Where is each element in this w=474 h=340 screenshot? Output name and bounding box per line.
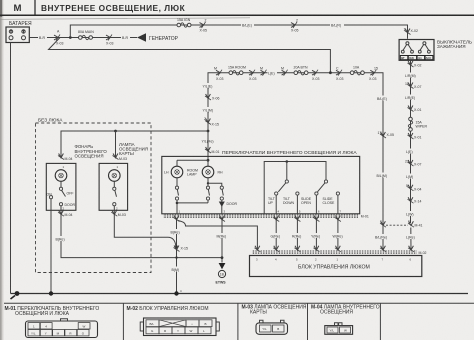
connector X-15 ground wire	[174, 246, 180, 252]
connector X-05 right column	[380, 132, 386, 138]
connector X-06	[205, 94, 211, 100]
legend M-01 connector body	[26, 321, 98, 338]
RH switch stem	[207, 178, 209, 186]
LH switch contact top	[175, 186, 178, 189]
ignition switch tree right	[423, 42, 426, 45]
pin1 exit chevron	[174, 216, 180, 222]
slide close contact	[336, 192, 339, 195]
wire label L/R(M)	[405, 73, 418, 78]
switch blade	[115, 190, 117, 197]
RH switch contact bottom	[206, 197, 209, 200]
wire label B/L(Re)	[375, 234, 390, 239]
contact DOOR	[59, 203, 62, 206]
slide blade	[318, 183, 326, 192]
pin3 exit chevron	[219, 216, 225, 222]
fuse 15A ROOM	[229, 71, 243, 75]
RH wire to link	[207, 200, 209, 203]
wire junction up to ignition feed line	[70, 25, 407, 39]
M-02 left ear	[140, 322, 143, 331]
RH room lamp bulb	[202, 166, 214, 178]
wire label M(Re)	[216, 233, 228, 238]
junction node crossing	[175, 256, 177, 258]
fuse 15A IGN on ignition feed line	[177, 23, 191, 27]
junction node LH bottom	[176, 202, 179, 205]
slide close wire to pin	[337, 195, 339, 214]
connector X-07 lower	[408, 160, 414, 166]
connector X-14	[408, 197, 414, 203]
connector X-15	[205, 119, 211, 125]
switch unit M-01 box	[162, 156, 360, 213]
LH switch contact bottom	[175, 197, 178, 200]
wire label B/L(R)	[330, 23, 344, 28]
LH switch blade	[177, 189, 178, 195]
connector X-03	[249, 70, 255, 76]
bottom link wire	[177, 202, 208, 204]
connector M arrow	[282, 70, 288, 76]
connector M-04 top	[58, 154, 64, 160]
generator page arrow	[137, 33, 146, 42]
wire tilt down to control	[296, 218, 298, 250]
ground symbol	[15, 291, 20, 296]
wire label L(W)	[406, 211, 416, 216]
connector X-03 on battery wire	[54, 35, 60, 41]
battery terminal left	[9, 30, 12, 33]
connector X-03 to generator	[106, 35, 112, 41]
wire into big box	[207, 131, 209, 160]
junction node RH top link	[207, 182, 209, 184]
wire slide open to control	[315, 218, 317, 250]
lamp feed wire to room lamps	[61, 131, 208, 157]
LH room lamp bulb	[171, 166, 183, 178]
legend M-03 connector body	[256, 323, 288, 334]
fuse 15A WIPER vertical	[408, 117, 412, 131]
fuse row wire	[208, 73, 383, 250]
sunroof switch bus	[264, 162, 326, 214]
switch pivot	[113, 187, 116, 190]
junction node fuse row	[329, 71, 332, 74]
slide pivot contact	[324, 180, 327, 183]
slide open contact	[315, 192, 318, 195]
connector C arrow	[336, 70, 342, 76]
M-01 bottom row cells	[28, 330, 40, 336]
tilt pivot contact	[285, 180, 288, 183]
tilt blade	[278, 183, 286, 192]
legend divider 4	[379, 303, 381, 340]
tilt down wire to pin	[296, 195, 298, 214]
junction node room lamp feed	[207, 159, 210, 162]
wire label B/L(M)	[376, 173, 390, 178]
legend divider 3	[307, 303, 309, 340]
junction node ground lamp	[49, 291, 53, 295]
interior lamp bulb	[55, 170, 67, 182]
legend divider 1	[122, 303, 124, 340]
fuse 80A MAIN	[79, 35, 93, 39]
connector X-01	[408, 106, 414, 112]
wire label L(E)	[406, 149, 416, 154]
ignition switch tree left	[406, 42, 409, 45]
connector X-04	[408, 185, 414, 191]
map lamp feed	[115, 131, 117, 157]
legend M-02 connector body	[144, 318, 217, 336]
fuse 20A BTN	[294, 71, 308, 75]
M-03 ears	[260, 320, 285, 323]
legend divider 2	[237, 303, 239, 340]
wire out of map lamp	[114, 206, 176, 247]
wire label B-R	[121, 35, 130, 40]
frame top rule	[0, 18, 250, 20]
M-02 bottom row	[146, 327, 159, 334]
connector M-04 bottom	[58, 210, 64, 216]
slide open wire to pin	[315, 195, 317, 214]
M-02 connector strip hatch	[252, 250, 417, 253]
switch pivot	[59, 187, 62, 190]
M-01 top row cell 2	[40, 323, 52, 329]
header divider	[34, 0, 36, 15]
M-02 top row	[146, 320, 159, 327]
M-02 right ear	[216, 322, 219, 331]
branch to control unit pin	[178, 221, 257, 250]
connector X-05 second on ignition feed	[291, 22, 297, 28]
tilt up contact	[275, 192, 278, 195]
right feed column labels	[377, 96, 390, 101]
wire label L/R(E)	[405, 95, 418, 100]
control unit box	[250, 256, 422, 277]
connector M-01 feed	[205, 147, 211, 153]
M-03 cells	[260, 325, 272, 332]
wire pin3 to ETWS	[221, 218, 223, 263]
connector M-03 top	[113, 154, 119, 160]
ignition output wire	[410, 60, 413, 249]
junction node ground switch	[174, 291, 178, 295]
wire battery to junction	[29, 37, 137, 39]
wire label B(Re)	[55, 236, 66, 241]
contact ON	[49, 196, 52, 199]
ignition terminal row	[400, 56, 408, 60]
header bottom rule	[0, 14, 474, 16]
wire label B(Re)	[170, 229, 181, 234]
M-04 top tab	[335, 323, 343, 326]
junction node map lamp tap	[114, 130, 117, 133]
door switch contact bottom	[220, 197, 223, 200]
wire label B/L(E)	[241, 23, 254, 28]
wire label Y/L(Re)	[201, 138, 215, 143]
junction node map lamp join	[175, 245, 178, 248]
switch blade	[62, 190, 66, 196]
connector X-03 right	[370, 70, 376, 76]
LH switch stem	[176, 178, 178, 186]
M-01 connector strip hatch	[163, 214, 358, 218]
RH switch blade	[208, 189, 209, 195]
legend top rule	[4, 302, 474, 304]
left scan edge shading	[0, 0, 2, 340]
map lamp M-03 box	[99, 163, 128, 210]
ETWS splice arrow	[219, 263, 226, 269]
switch contact	[113, 203, 116, 206]
branch wire diagonal to fuse row feed	[49, 38, 331, 73]
RH switch contact top	[206, 186, 209, 189]
junction node main	[69, 36, 72, 39]
map lamp bulb	[109, 170, 121, 182]
wire label B(M)	[171, 267, 181, 272]
inline connector pair M-41	[380, 221, 386, 227]
tilt up wire to pin	[275, 195, 277, 214]
connector M arrow	[261, 70, 267, 76]
top link wire to door column	[208, 183, 222, 186]
M-01 top row cell 3	[78, 323, 90, 329]
LH lamp drop	[176, 160, 178, 166]
door switch contact top	[220, 186, 223, 189]
connector X-05 on ignition feed	[200, 22, 206, 28]
connector X-03 fuse row left	[216, 70, 222, 76]
door switch blade	[222, 189, 223, 195]
DOOR wire out	[61, 206, 222, 258]
connector M-03 bottom	[111, 210, 117, 216]
battery terminal right	[22, 30, 25, 33]
ignition feed arrow	[405, 29, 411, 35]
lamp bus wire	[177, 159, 208, 161]
door arrow symbol	[220, 200, 224, 206]
lamp stem	[60, 181, 62, 187]
wire tilt up to control	[275, 218, 277, 250]
wire label Y/L(M)	[202, 107, 215, 112]
tilt pivot drop	[286, 162, 288, 180]
ground bus	[11, 293, 469, 295]
door wire to pin	[221, 206, 223, 214]
M-01 top tab	[61, 319, 68, 321]
battery B-01 box	[6, 27, 29, 43]
wire slide close to control	[337, 218, 339, 250]
junction node ETWS	[221, 256, 224, 259]
wire label B-R	[38, 34, 47, 39]
wire pin1 to ground	[176, 218, 178, 294]
connector X-03	[312, 70, 318, 76]
lamp stem	[113, 181, 115, 187]
junction node lamp feed	[207, 130, 210, 133]
tilt down contact	[296, 192, 299, 195]
legend M-04 connector body	[325, 326, 353, 335]
connector X-01 below fuse	[408, 133, 414, 139]
ETWS splice circle	[218, 270, 225, 277]
wire label L(M)	[406, 174, 416, 179]
M-04 cells	[327, 327, 338, 333]
ignition switch box	[399, 40, 434, 61]
junction node bus tilt	[286, 160, 289, 163]
battery ground wire	[10, 43, 12, 294]
RH lamp drop	[207, 160, 209, 166]
M-01 top row cell 1	[28, 323, 40, 329]
control unit connector chevrons	[254, 246, 260, 252]
wire label L(Re)	[406, 234, 417, 239]
wire label L(E)	[268, 70, 278, 75]
lamp unit M-04 box	[46, 163, 76, 210]
fuse 10A	[350, 71, 364, 75]
LH wire to pin	[176, 200, 178, 214]
wire label Y/L(E)	[202, 83, 214, 88]
ON wire to ground	[50, 199, 52, 294]
connector X-02 below ignition	[408, 61, 414, 67]
connector X-07	[408, 83, 414, 89]
